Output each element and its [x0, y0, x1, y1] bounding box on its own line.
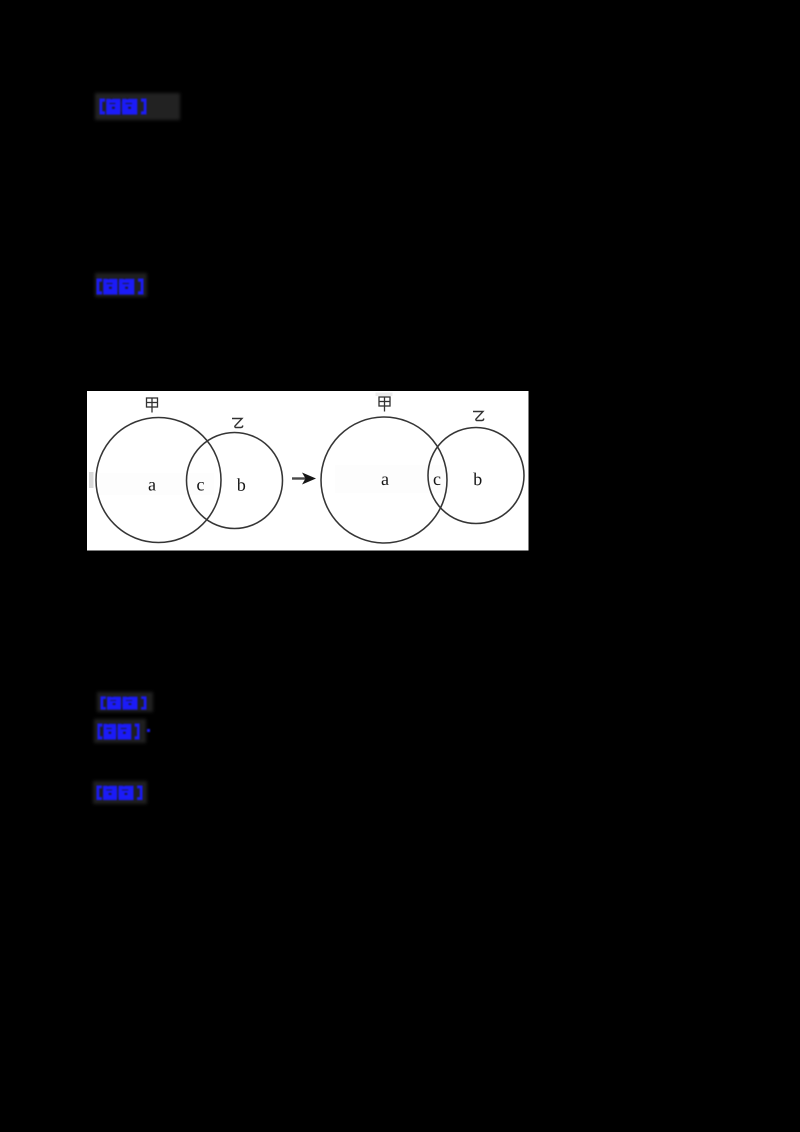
left venn: circle jia (big)	[96, 418, 221, 543]
arrow between diagrams	[292, 477, 306, 479]
halo behind label 5	[93, 781, 147, 804]
halo behind label 4	[94, 719, 146, 743]
halo behind label 1	[95, 93, 180, 120]
right venn: circle jia (big)	[321, 417, 447, 543]
halo behind label 2	[95, 273, 147, 297]
faint scan streaks	[99, 473, 214, 495]
left venn: circle yi (small)	[187, 433, 283, 529]
left label jia drawn	[147, 398, 158, 413]
region letters a c b (right)	[382, 473, 482, 486]
colon dot after label 4	[147, 729, 150, 732]
halo behind label 3	[97, 692, 153, 712]
region letters a c b (left)	[149, 478, 245, 491]
left label yi drawn	[232, 419, 243, 428]
right venn: circle yi (small)	[428, 428, 524, 524]
label 3 blue tag	[100, 696, 147, 710]
right label jia drawn	[379, 397, 390, 412]
right label yi drawn	[473, 412, 484, 421]
figure: white panel with two venn diagrams	[87, 391, 529, 551]
label 2 blue tag	[96, 278, 144, 295]
label 5 blue tag	[96, 785, 143, 801]
white background panel	[87, 391, 529, 551]
label 4 blue tag	[97, 723, 140, 740]
shared blue tag glyph	[0, 0, 1, 1]
smudge above right jia	[376, 393, 393, 397]
gray tick artifact on left edge	[89, 472, 94, 488]
label 1 blue tag	[99, 98, 147, 115]
